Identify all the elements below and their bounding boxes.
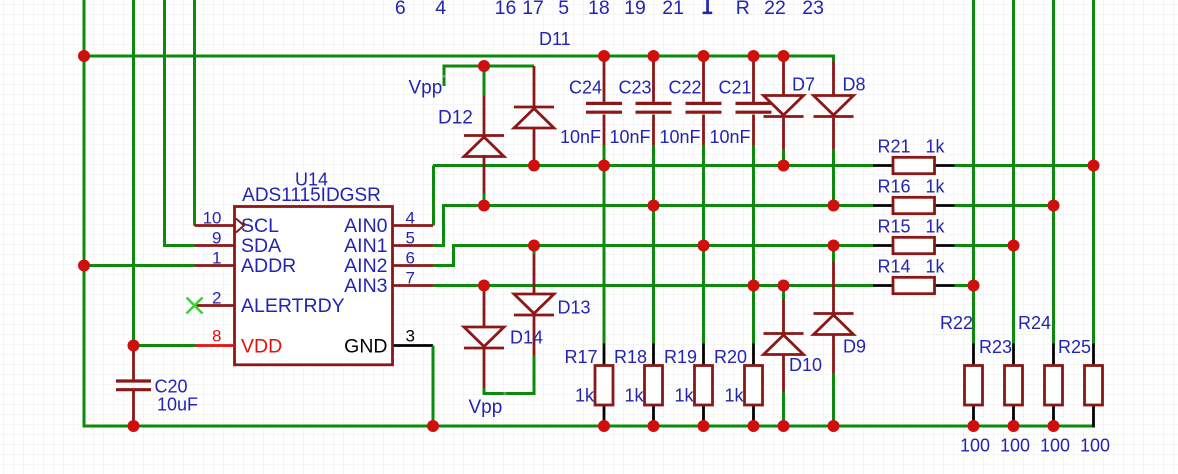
resistor R15 stubs (black) <box>873 244 893 247</box>
svg-text:1k: 1k <box>926 177 946 197</box>
junction C23 top <box>648 50 660 62</box>
svg-text:D7: D7 <box>792 75 815 95</box>
junction R19 gnd <box>698 420 710 432</box>
capacitor C23 plates <box>636 102 672 105</box>
diode D7 symbol <box>764 96 804 116</box>
svg-text:AIN2: AIN2 <box>344 255 387 277</box>
wire VDD horizontal <box>132 344 196 347</box>
svg-text:5: 5 <box>558 0 569 19</box>
resistor R16 stubs (black) <box>873 204 893 207</box>
pin SCL clock symbol <box>236 219 244 233</box>
wire AIN0 bus <box>433 164 873 167</box>
diode D10 wire segments <box>782 286 785 300</box>
junction C24/AIN0 <box>598 160 610 172</box>
diode D11 symbol <box>514 106 554 109</box>
junction R23 gnd <box>1008 420 1020 432</box>
capacitor C22 pins <box>702 56 705 102</box>
resistor R21 body <box>893 157 935 173</box>
diode D12 symbol <box>464 134 504 137</box>
junction R24 gnd <box>1048 420 1060 432</box>
svg-text:1: 1 <box>212 249 221 268</box>
junction R22 gnd <box>968 420 980 432</box>
svg-text:100: 100 <box>1080 436 1110 456</box>
wire R24 vertical <box>1052 0 1055 344</box>
resistor R25 body <box>1085 366 1103 406</box>
resistor R23 stubs (black) <box>1012 344 1015 366</box>
junction C22 top <box>698 50 710 62</box>
svg-text:18: 18 <box>588 0 610 19</box>
pin 9 SDA stub <box>195 244 235 247</box>
wire SDA vertical <box>163 0 166 246</box>
diode D8 symbol <box>814 96 854 116</box>
diode D13 wire segments <box>533 246 536 255</box>
wire AIN3 bus right of R14 <box>955 284 974 287</box>
svg-text:R16: R16 <box>878 177 911 197</box>
svg-text:7: 7 <box>406 269 415 288</box>
svg-text:AIN1: AIN1 <box>344 235 387 257</box>
diode D14 wire segments <box>483 286 486 288</box>
svg-text:R22: R22 <box>940 313 973 333</box>
svg-text:R15: R15 <box>878 217 911 237</box>
pin 8 VDD stub (red) <box>196 344 235 347</box>
svg-text:ALERTRDY: ALERTRDY <box>241 295 345 317</box>
svg-text:100: 100 <box>1000 436 1030 456</box>
junction AIN2/R23 net <box>1008 240 1020 252</box>
svg-text:Vpp: Vpp <box>469 397 503 418</box>
svg-text:17: 17 <box>522 0 544 19</box>
svg-text:AIN0: AIN0 <box>344 215 388 237</box>
wire R23 vertical <box>1012 0 1015 344</box>
svg-text:100: 100 <box>960 436 990 456</box>
diode D12 pins <box>483 96 486 136</box>
diode D8 pins <box>832 61 835 96</box>
net label 1 (cut off at top, drawn with foot serif) <box>706 0 709 12</box>
svg-text:SCL: SCL <box>241 215 279 237</box>
svg-text:ADDR: ADDR <box>241 255 296 277</box>
svg-text:VDD: VDD <box>241 336 282 358</box>
svg-text:2: 2 <box>212 289 221 308</box>
svg-text:10nF: 10nF <box>609 127 650 147</box>
wire left vertical (ADDR/gnd) <box>83 0 86 428</box>
svg-text:23: 23 <box>802 0 824 19</box>
svg-text:C22: C22 <box>668 78 701 98</box>
svg-text:10uF: 10uF <box>157 395 198 415</box>
svg-text:GND: GND <box>344 336 387 358</box>
wire top ground bus <box>84 55 834 58</box>
junction R17 gnd <box>598 420 610 432</box>
svg-text:10nF: 10nF <box>560 127 601 147</box>
svg-text:1k: 1k <box>926 137 946 157</box>
svg-text:R19: R19 <box>664 347 697 367</box>
capacitor C20 plates <box>116 379 151 382</box>
junction D12/AIN1 <box>478 200 490 212</box>
svg-text:6: 6 <box>395 0 406 19</box>
junction D8/AIN1 <box>828 200 840 212</box>
junction Vpp top <box>478 60 490 72</box>
resistor R14 stubs (black) <box>873 284 893 287</box>
capacitor C22 plates <box>686 102 722 105</box>
svg-text:9: 9 <box>212 229 221 248</box>
wire R25 vertical <box>1092 0 1095 344</box>
junction D9/AIN2 <box>828 240 840 252</box>
junction C20 gnd <box>128 420 140 432</box>
svg-text:1k: 1k <box>926 257 946 277</box>
wire R22 vertical <box>972 0 975 344</box>
svg-text:R21: R21 <box>878 137 911 157</box>
pin 6 AIN2 stub <box>393 264 434 267</box>
resistor R24 body <box>1045 366 1063 406</box>
junction AIN3/R22 net <box>968 280 980 292</box>
junction D9 gnd <box>828 420 840 432</box>
svg-text:D11: D11 <box>539 29 571 49</box>
wire AIN0 riser <box>432 166 435 226</box>
svg-text:C21: C21 <box>718 78 751 98</box>
resistor R24 stubs (black) <box>1052 344 1055 366</box>
diode D13 symbol <box>514 294 554 314</box>
svg-text:1k: 1k <box>674 386 694 406</box>
wire Vpp top horizontal <box>444 66 534 86</box>
svg-text:ADS1115IDGSR: ADS1115IDGSR <box>242 185 381 206</box>
svg-text:R: R <box>736 0 750 19</box>
svg-text:D13: D13 <box>558 298 591 318</box>
wire ADDR horizontal <box>84 264 195 267</box>
svg-text:C24: C24 <box>569 78 602 98</box>
pin 2 ALERTRDY stub <box>195 304 235 307</box>
diode D7 pins <box>782 61 785 96</box>
capacitor C24 pins <box>603 56 606 102</box>
resistor R17 body <box>595 366 613 406</box>
diode D9 wire segments <box>832 246 835 262</box>
diode D14 pins <box>483 287 486 327</box>
svg-text:1k: 1k <box>575 386 595 406</box>
resistor R18 body <box>645 366 663 406</box>
op-amp U14 ADS1115IDGSR body <box>235 207 393 365</box>
no-connect X on pin 2 <box>187 298 203 314</box>
capacitor C23 pins <box>652 56 655 102</box>
diode D10 symbol <box>764 332 804 335</box>
junction C24 top <box>598 50 610 62</box>
resistor R19 stubs (black) <box>702 344 705 366</box>
pin 1 ADDR stub <box>195 264 235 267</box>
junction D7/AIN0 <box>778 160 790 172</box>
capacitor C24 wire down <box>603 145 606 344</box>
svg-text:16: 16 <box>495 0 517 19</box>
wire AIN3 bus <box>433 284 873 287</box>
junction AIN0/R25 net <box>1088 160 1100 172</box>
wire GND vertical <box>432 346 435 427</box>
junction top-left <box>78 50 90 62</box>
svg-text:D14: D14 <box>510 328 543 348</box>
svg-text:1k: 1k <box>724 386 744 406</box>
junction D10 gnd <box>778 420 790 432</box>
svg-text:SDA: SDA <box>241 235 281 257</box>
svg-text:Vpp: Vpp <box>409 78 443 99</box>
resistor R22 stubs (black) <box>972 344 975 366</box>
svg-text:4: 4 <box>435 0 446 19</box>
svg-text:R24: R24 <box>1018 313 1051 333</box>
svg-text:R25: R25 <box>1058 337 1091 357</box>
capacitor C21 plates <box>736 102 772 105</box>
junction IC gnd <box>427 420 439 432</box>
resistor R21 stubs (black) <box>873 164 893 167</box>
diode D13 pins <box>533 254 536 294</box>
svg-text:8: 8 <box>212 327 221 346</box>
resistor R20 stubs (black) <box>752 344 755 366</box>
junction D13/AIN2 <box>528 240 540 252</box>
diode D11 pins <box>533 66 536 107</box>
junction C23/AIN1 <box>648 200 660 212</box>
resistor R17 stubs (black) <box>603 344 606 366</box>
svg-text:D10: D10 <box>789 355 822 375</box>
wire Vpp bottom horizontal <box>483 392 536 395</box>
svg-text:1k: 1k <box>624 386 644 406</box>
svg-text:R18: R18 <box>614 347 647 367</box>
svg-text:19: 19 <box>624 0 646 19</box>
junction D11/AIN0 <box>528 160 540 172</box>
wire bottom ground bus <box>83 425 1094 428</box>
svg-text:C20: C20 <box>155 377 188 397</box>
resistor R25 stubs (black) <box>1092 344 1095 366</box>
svg-text:R17: R17 <box>564 347 597 367</box>
svg-text:5: 5 <box>406 229 415 248</box>
svg-text:R14: R14 <box>878 257 911 277</box>
resistor R22 body <box>965 366 983 406</box>
svg-text:D8: D8 <box>843 75 866 95</box>
wire AIN0 bus right of R21 <box>955 164 1094 167</box>
capacitor C20 pins <box>132 346 135 380</box>
svg-text:22: 22 <box>764 0 786 19</box>
wire SDA horizontal <box>163 244 195 247</box>
resistor R14 body <box>893 277 935 293</box>
diode D8 wire segments <box>832 55 835 62</box>
svg-text:D9: D9 <box>843 337 866 357</box>
svg-text:C23: C23 <box>618 78 651 98</box>
junction D10/AIN3 <box>778 280 790 292</box>
resistor R23 body <box>1005 366 1023 406</box>
svg-text:21: 21 <box>662 0 684 19</box>
wire VDD vertical <box>132 0 135 346</box>
svg-text:10nF: 10nF <box>709 127 750 147</box>
svg-text:10: 10 <box>203 209 222 228</box>
resistor R20 body <box>745 366 763 406</box>
junction D7 top <box>778 50 790 62</box>
svg-text:R20: R20 <box>714 347 747 367</box>
diode D12 wire segments <box>483 66 486 96</box>
svg-text:100: 100 <box>1040 436 1070 456</box>
svg-text:R23: R23 <box>979 337 1012 357</box>
wire GND pin stub (black) <box>393 344 434 347</box>
wire AIN1 riser <box>433 206 873 246</box>
junction R20 gnd <box>748 420 760 432</box>
diode D9 pins <box>832 261 835 314</box>
capacitor C24 plates <box>586 102 622 105</box>
pin 10 SCL stub <box>195 224 235 227</box>
junction VDD/C20 <box>128 340 140 352</box>
junction AIN1/R24 net <box>1048 200 1060 212</box>
svg-text:3: 3 <box>406 327 415 346</box>
junction C21 top <box>748 50 760 62</box>
junction ADDR <box>78 260 90 272</box>
svg-text:1k: 1k <box>926 217 946 237</box>
svg-text:10nF: 10nF <box>659 127 700 147</box>
diode D14 symbol <box>464 327 504 347</box>
svg-text:6: 6 <box>406 249 415 268</box>
resistor R19 body <box>695 366 713 406</box>
capacitor C21 wire down <box>752 145 755 344</box>
wire SCL vertical <box>193 0 196 226</box>
pin 7 AIN3 stub <box>393 284 434 287</box>
wire AIN2 riser <box>433 246 873 266</box>
capacitor C22 wire down <box>702 145 705 344</box>
resistor R15 body <box>893 237 935 253</box>
capacitor C23 wire down <box>652 145 655 344</box>
svg-text:D12: D12 <box>438 108 473 129</box>
pin 5 AIN1 stub <box>393 244 434 247</box>
junction R18 gnd <box>648 420 660 432</box>
pin 4 AIN0 stub <box>393 224 434 227</box>
diode D7 wire segments <box>782 56 785 61</box>
junction C22/AIN2 <box>698 240 710 252</box>
junction D14/AIN3 <box>478 280 490 292</box>
resistor R18 stubs (black) <box>652 344 655 366</box>
diode D9 symbol <box>814 312 854 315</box>
wire AIN1 bus right of R16 <box>955 204 1054 207</box>
resistor R16 body <box>893 197 935 213</box>
capacitor C21 pins <box>752 56 755 102</box>
wire AIN2 bus right of R15 <box>955 244 1014 247</box>
junction C21/AIN3 <box>748 280 760 292</box>
diode D10 pins <box>782 299 785 334</box>
svg-text:4: 4 <box>406 209 415 228</box>
svg-text:AIN3: AIN3 <box>344 275 387 297</box>
